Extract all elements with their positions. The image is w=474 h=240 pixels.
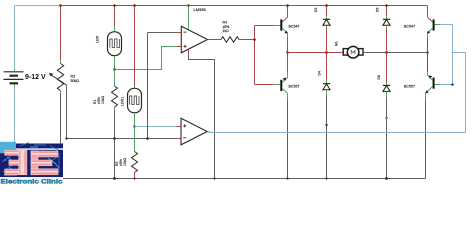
- wire: Q4 top lead up to right motor node (green): [427, 53, 429, 76]
- LDR (top light sensor): [108, 32, 122, 56]
- wire: top rail right end down to Q3 collector (red): [427, 6, 429, 18]
- label: M1: [335, 41, 339, 46]
- resistor R4 zigzag: [221, 37, 239, 43]
- wire: op1 V+ pin to top rail (green): [188, 6, 190, 30]
- op-amp U1:B LM358: [181, 118, 207, 145]
- wire: top-left blue segment of top rail: [15, 5, 61, 7]
- wire: op1 minus input link down to op2 minus net (dark): [148, 33, 182, 139]
- diode D3: [323, 19, 330, 25]
- label: LDR1: [121, 97, 125, 106]
- transistor Q3 BC547 (right NPN, mirrored): [427, 17, 435, 33]
- junction: ground rail at D4 column: [325, 177, 327, 179]
- logo: Electronic Clinic caption: [0, 177, 63, 185]
- svg-text:M1: M1: [335, 41, 339, 46]
- wire: Q2 base wire (red/green): [255, 84, 281, 86]
- wire: D5 bottom to motor node (red): [386, 25, 388, 52]
- wire: motor left wire (red): [288, 52, 344, 54]
- diode D4: [323, 84, 330, 90]
- svg-text:D5: D5: [376, 8, 380, 12]
- diode D6: [383, 85, 390, 91]
- wire: motor node down to D4 (red): [326, 53, 328, 84]
- wire: Q3 emitter down to right motor node (green): [427, 33, 429, 53]
- label: D3: [314, 8, 318, 12]
- wire: op1 output to R4 (red): [208, 39, 222, 41]
- junction: LDR2/R5 divider node: [133, 125, 136, 128]
- wire: R3 wiper column to comparator minus net: [66, 85, 68, 139]
- svg-text:LDR1: LDR1: [121, 97, 125, 106]
- junction: R1 column crosses op2 minus net: [113, 137, 116, 140]
- wire: top power rail (red): [61, 5, 428, 7]
- junction: ground rail at LM358 pin column: [213, 177, 215, 179]
- logo: letter C (pink striped): [31, 151, 58, 175]
- wire: R4 to base column (red): [239, 39, 255, 41]
- transistor Q4 BC557 (right PNP, mirrored): [425, 75, 434, 93]
- wire: battery left column (blue): [14, 6, 16, 145]
- svg-text:D3: D3: [314, 8, 318, 12]
- potentiometer R3 wiper arrow: [49, 73, 67, 85]
- wire: Q1 emitter down to motor node (green): [287, 33, 289, 53]
- wire: R1 bottom column to ground rail: [114, 107, 116, 179]
- wire: divider node down to R5 (green): [134, 127, 136, 152]
- svg-text:D6: D6: [377, 75, 381, 79]
- label: BC547 (right): [404, 24, 415, 28]
- label: D4: [318, 71, 322, 75]
- svg-text:BC557: BC557: [289, 85, 300, 89]
- svg-text:9-12 V: 9-12 V: [25, 74, 46, 81]
- label: LM358: [194, 7, 207, 12]
- svg-text:BC547: BC547: [289, 24, 300, 28]
- logo: letter E-mirrored (pink striped): [5, 150, 27, 175]
- svg-text:1kΩ: 1kΩ: [223, 29, 230, 33]
- wire: right net branch to outer column (blue): [211, 53, 466, 133]
- label: BC547 (left): [289, 24, 300, 28]
- label: R5 ±5% 10kΩ: [115, 158, 127, 166]
- label: R4 ±5% 1kΩ: [223, 21, 230, 34]
- wire: right base column (blue): [452, 25, 454, 85]
- junction: R4 joins base column: [253, 38, 256, 41]
- wire: op2 output green tip: [207, 131, 212, 134]
- wire: LDR2 top column (red): [134, 6, 136, 89]
- motor M1: [343, 46, 363, 58]
- junction: left motor node: [286, 51, 289, 54]
- wire: Q1 base wire (red/green): [255, 25, 281, 27]
- wire: divider node to op2 plus input (blue): [135, 126, 182, 128]
- wire: Q4 base to right net column (blue): [435, 84, 453, 86]
- wire: Q4 bottom lead down to ground rail: [425, 93, 427, 179]
- wire: Q2 top lead up to motor node (green): [287, 53, 289, 78]
- junction: wiper corner: [65, 137, 67, 139]
- wire: op2 inverting input horizontal net: [67, 138, 182, 140]
- label: D5: [376, 8, 380, 12]
- wire: D4 bottom column to ground rail: [326, 90, 328, 179]
- label: battery value 9-12 V: [25, 74, 46, 81]
- LDR1 (bottom light sensor): [128, 88, 142, 112]
- junction: link joins op2 minus net: [146, 137, 149, 140]
- svg-text:LM358: LM358: [194, 7, 207, 12]
- junction: top rail at D5: [385, 4, 388, 7]
- junction: ground rail at D6 column: [385, 177, 388, 180]
- junction: Q4 base joins column: [451, 83, 454, 86]
- label: LDR: [96, 35, 100, 43]
- wire: Q1 collector to top rail (red): [287, 6, 289, 18]
- wire: motor node down to D6 (red): [386, 53, 388, 86]
- wire: R5 bottom lead to ground rail (red): [134, 173, 136, 179]
- wire: motor right wire (dark): [363, 52, 428, 54]
- svg-text:Electronic Clinic: Electronic Clinic: [1, 178, 63, 184]
- wire: Q3 base to right net column (blue): [435, 24, 453, 26]
- label: BC557 (right): [404, 85, 415, 89]
- wire: LDR1 top column (red): [114, 6, 116, 32]
- battery BT1 9-12V: [4, 69, 24, 87]
- label: BC557 (left): [289, 85, 300, 89]
- resistor R1 zigzag: [112, 86, 118, 107]
- wire: divider node down to R1 (green): [114, 70, 116, 87]
- junction: small node on D6 column: [385, 117, 387, 119]
- wire: Q2 bottom lead down to ground rail: [287, 93, 289, 178]
- junction: top rail at LDR1: [113, 4, 116, 7]
- wire: LDR2 bottom to node (green): [134, 113, 136, 127]
- junction: top rail at LDR2: [133, 4, 136, 7]
- svg-text:10kΩ: 10kΩ: [123, 158, 127, 166]
- wire: op1 V- pin to ground rail: [189, 50, 215, 179]
- wire: divider node to op1 plus input (green): [115, 47, 182, 70]
- junction: ground rail at R5: [133, 177, 135, 179]
- wire: D6 bottom column to ground rail: [386, 91, 388, 178]
- wire: left base column (red): [254, 26, 256, 85]
- potentiometer R3 zigzag: [57, 64, 63, 91]
- transistor Q2 BC557 (left PNP): [280, 78, 287, 94]
- wire: D3 bottom to motor node (red): [326, 25, 328, 52]
- svg-text:LDR: LDR: [96, 35, 100, 43]
- svg-text:10kΩ: 10kΩ: [101, 96, 105, 104]
- svg-text:BC547: BC547: [404, 24, 415, 28]
- wire: LDR1 bottom to junction (green): [114, 56, 116, 70]
- wire: D3 column from top rail (red): [326, 6, 328, 20]
- label: R1 ±5% 10kΩ: [93, 96, 105, 104]
- wire: ground rail (dark): [40, 178, 426, 180]
- junction: top rail at D3: [325, 4, 328, 7]
- label: D6: [377, 75, 381, 79]
- junction: top rail at R3: [59, 4, 62, 7]
- logo: Electronic Clinic background board: [0, 142, 63, 177]
- resistor R5 zigzag: [132, 152, 138, 173]
- diode D5: [383, 19, 390, 25]
- junction: right motor node: [426, 51, 429, 54]
- svg-text:50kΩ: 50kΩ: [71, 79, 80, 83]
- junction: small node on D4 column: [325, 124, 327, 126]
- junction: ground rail at R1 column: [113, 177, 116, 180]
- junction: top rail at Q1 collector: [286, 4, 289, 7]
- op-amp U1:A LM358: [181, 26, 207, 53]
- svg-text:BC557: BC557: [404, 85, 415, 89]
- junction: D5/D6 column at motor wire: [385, 51, 388, 54]
- wire: D5 column from top rail (red): [386, 6, 388, 20]
- junction: top rail at op V+: [187, 4, 189, 6]
- junction: ground rail at Q2 column: [286, 177, 288, 179]
- wire: R3 bottom column (dark): [60, 91, 62, 150]
- transistor Q1 BC547 (left NPN): [280, 17, 288, 33]
- junction: D3/D4 column at motor wire: [325, 51, 328, 54]
- wire: R3 top column (red): [60, 6, 62, 64]
- svg-text:D4: D4: [318, 71, 322, 75]
- label: R3 50kΩ: [71, 75, 80, 83]
- junction: LDR1/R1 divider node: [113, 68, 116, 71]
